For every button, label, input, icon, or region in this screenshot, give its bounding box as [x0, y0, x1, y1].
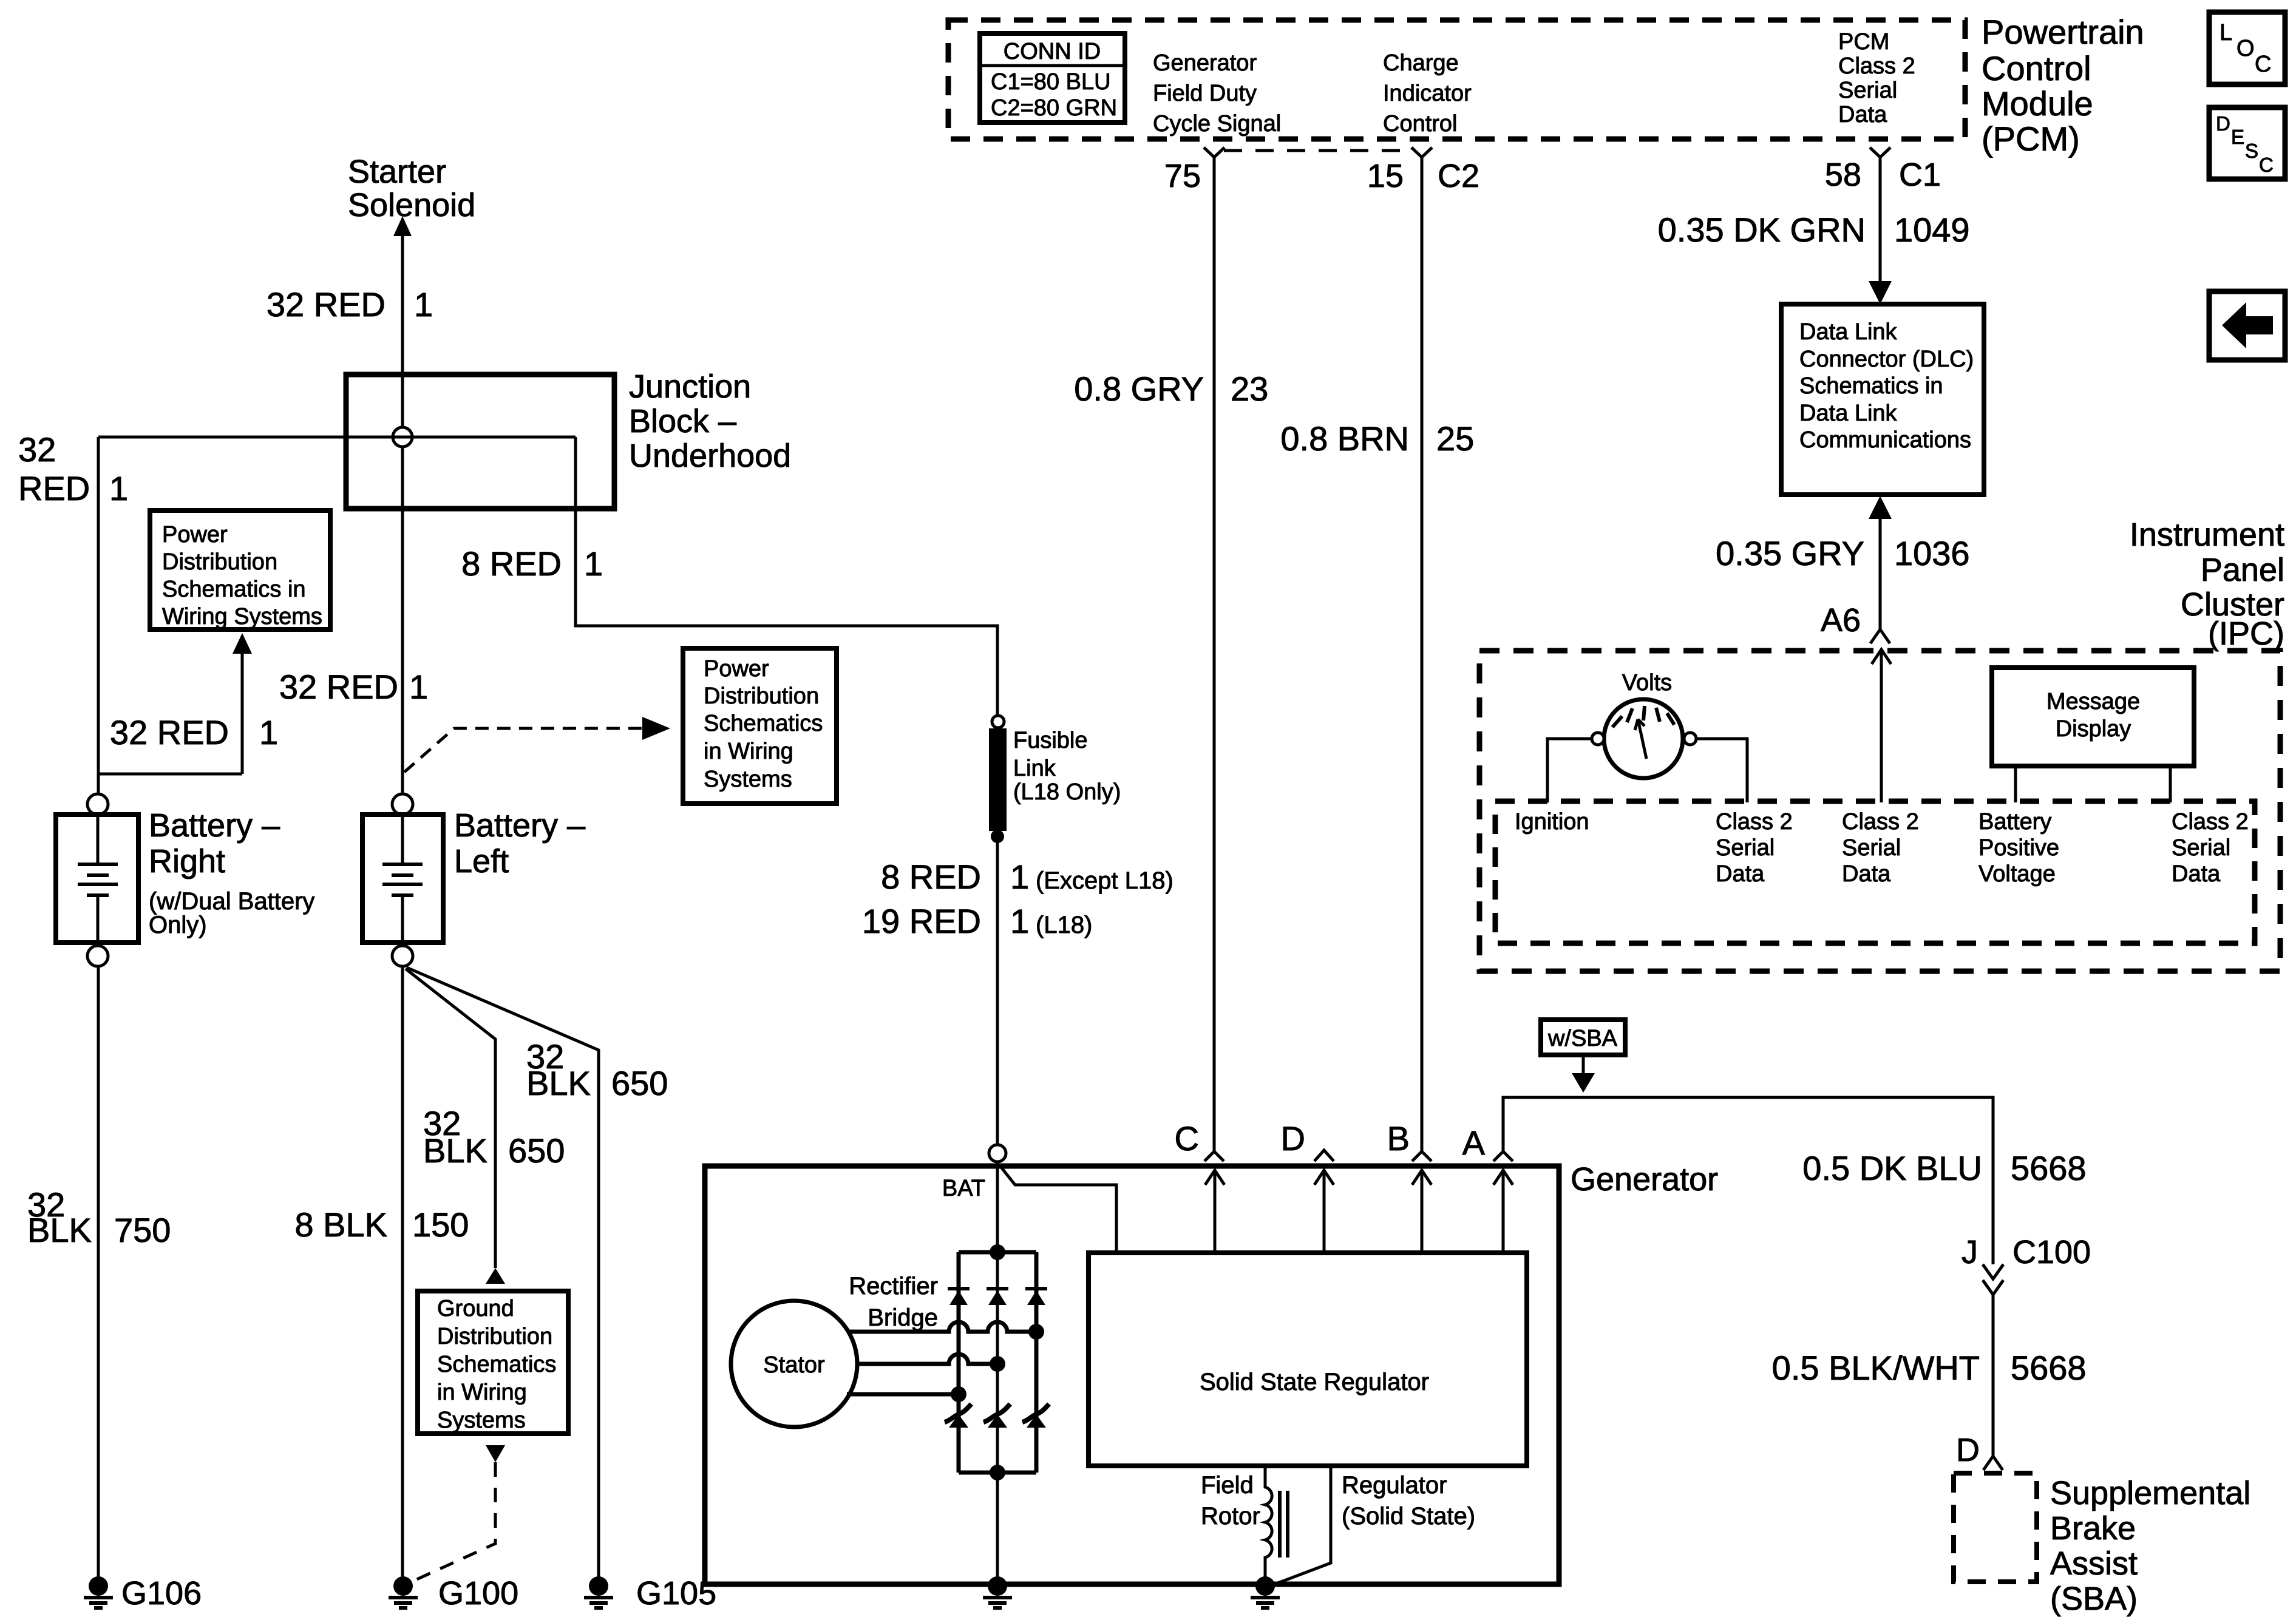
svg-text:1: 1	[1010, 902, 1029, 940]
regulator ground leg	[1268, 1466, 1331, 1587]
wire: PCM class 2 serial data down to DLC	[1879, 157, 1882, 284]
svg-text:Ground: Ground	[437, 1296, 514, 1321]
arrowhead into power distribution box 2	[642, 717, 670, 740]
svg-text:Class 2: Class 2	[1842, 809, 1919, 835]
svg-text:D: D	[2216, 112, 2230, 135]
svg-text:Right: Right	[149, 843, 225, 880]
svg-text:Solenoid: Solenoid	[348, 187, 475, 223]
dashed wire from ground distribution to G100	[413, 1462, 495, 1581]
battery right bottom terminal	[87, 946, 108, 966]
svg-text:Schematics: Schematics	[437, 1352, 556, 1377]
field rotor coil	[1265, 1466, 1272, 1585]
wire label 0.8 GRY 23	[1074, 370, 1268, 408]
wire: generator field duty cycle signal (PCM 75 to generator C)	[1213, 157, 1216, 1151]
svg-text:C2: C2	[1438, 158, 1479, 194]
svg-text:CONN ID: CONN ID	[1004, 39, 1101, 64]
svg-text:Message: Message	[2046, 689, 2140, 714]
svg-text:(L18 Only): (L18 Only)	[1013, 779, 1121, 805]
svg-text:Volts: Volts	[1622, 670, 1672, 696]
arrowhead up above ground distribution box	[486, 1268, 505, 1284]
arrowhead down below ground distribution box	[486, 1445, 505, 1462]
svg-text:0.35 DK GRN: 0.35 DK GRN	[1658, 211, 1866, 249]
svg-text:1036: 1036	[1894, 534, 1970, 572]
svg-text:C: C	[2255, 52, 2271, 77]
junction dot stator wire 1	[1028, 1324, 1044, 1340]
IPC internal wire from A6 down to class 2 serial data pin	[1872, 649, 1891, 802]
svg-text:Control: Control	[1982, 49, 2091, 87]
svg-text:Class 2: Class 2	[1838, 53, 1915, 79]
svg-text:C2=80 GRN: C2=80 GRN	[991, 95, 1117, 121]
svg-text:J: J	[1961, 1234, 1978, 1270]
svg-text:Wiring Systems: Wiring Systems	[162, 604, 322, 629]
svg-text:Generator: Generator	[1153, 50, 1257, 76]
svg-text:S: S	[2245, 140, 2258, 162]
wire: battery right to ground G106	[97, 966, 100, 1578]
ground G105	[584, 1575, 716, 1612]
battery left bottom terminal	[392, 946, 413, 966]
left-arrow legend box	[2209, 291, 2285, 360]
component name: Junction Block - Underhood	[629, 368, 791, 474]
svg-text:Starter: Starter	[348, 154, 446, 190]
svg-text:Display: Display	[2056, 716, 2131, 742]
svg-text:(Except L18): (Except L18)	[1036, 867, 1173, 894]
rectifier bridge top bus	[959, 1250, 1036, 1255]
svg-text:Assist: Assist	[2050, 1545, 2138, 1582]
component name: Battery - Left	[454, 807, 585, 880]
IPC pin label: Class 2 Serial Data (A6)	[1842, 809, 1919, 887]
svg-text:C1: C1	[1899, 157, 1941, 193]
svg-text:Positive: Positive	[1978, 835, 2059, 861]
svg-text:58: 58	[1825, 157, 1861, 193]
fusible link top terminal	[992, 716, 1004, 728]
svg-text:A: A	[1462, 1124, 1486, 1162]
svg-text:in Wiring: in Wiring	[704, 739, 793, 764]
wire label 32 BLK 750	[27, 1185, 171, 1249]
LOC legend box	[2209, 12, 2285, 84]
rectifier branch right	[1034, 1252, 1039, 1473]
wire: C100 down to SBA pin D	[1992, 1295, 1995, 1456]
wire label 0.35 GRY 1036	[1716, 534, 1969, 572]
svg-text:Charge: Charge	[1383, 50, 1459, 76]
junction dot stator wire 2	[990, 1356, 1005, 1372]
IPC inner dashed pin box	[1495, 801, 2255, 943]
pin 75 connector half at PCM	[1164, 147, 1224, 194]
svg-text:1: 1	[584, 544, 603, 583]
svg-text:Data Link: Data Link	[1799, 319, 1898, 345]
svg-text:B: B	[1387, 1119, 1410, 1158]
wire: charge indicator control (PCM 15 to generator B)	[1421, 157, 1424, 1151]
internal arrow to pin B	[1412, 1170, 1432, 1253]
svg-text:w/SBA: w/SBA	[1547, 1026, 1618, 1051]
svg-text:Block –: Block –	[629, 403, 736, 439]
svg-text:Battery –: Battery –	[454, 807, 585, 844]
svg-text:Field: Field	[1201, 1472, 1254, 1499]
Data Link Connector (DLC) reference box	[1781, 304, 1984, 495]
wire up to power distribution box	[241, 654, 244, 774]
PCM pin label: PCM Class 2 Serial Data	[1838, 29, 1915, 127]
svg-text:8 RED: 8 RED	[461, 544, 562, 583]
svg-text:E: E	[2231, 126, 2244, 148]
svg-text:1: 1	[409, 668, 428, 706]
junction dot on BAT wire at top bus	[990, 1244, 1005, 1260]
dashed wire to power distribution reference box 2	[404, 728, 642, 772]
svg-text:Power: Power	[162, 522, 228, 547]
svg-text:Link: Link	[1013, 756, 1056, 781]
IPC pin label: Class 2 Serial Data (message display)	[2172, 809, 2249, 887]
svg-text:(w/Dual Battery: (w/Dual Battery	[149, 888, 314, 915]
svg-text:Connector (DLC): Connector (DLC)	[1799, 347, 1974, 372]
wire: battery left diagonal to ground distribution branch	[406, 969, 495, 1268]
svg-text:Communications: Communications	[1799, 427, 1971, 453]
wire: battery left feed up to starter solenoid	[401, 236, 404, 794]
wire label 32 RED 1 (power distribution branch)	[110, 713, 278, 751]
message display box	[1992, 668, 2194, 766]
svg-text:25: 25	[1436, 419, 1474, 458]
svg-text:5668: 5668	[2011, 1149, 2087, 1187]
component name: Powertrain Control Module (PCM)	[1982, 13, 2144, 158]
wire label 32 BLK 650 (G105)	[526, 1037, 668, 1102]
ground G100	[389, 1575, 518, 1612]
wire: message display left leg	[2014, 766, 2017, 802]
svg-text:Distribution: Distribution	[162, 549, 277, 575]
wire: junction block right drop	[576, 437, 997, 716]
Supplemental Brake Assist (SBA) dashed box	[1954, 1473, 2037, 1582]
svg-text:23: 23	[1231, 370, 1268, 408]
arrowhead into power distribution box	[233, 633, 252, 654]
svg-text:650: 650	[611, 1064, 668, 1102]
svg-text:A6: A6	[1821, 602, 1861, 639]
diode on middle branch	[987, 1289, 1008, 1305]
wire label 19 RED 1 (L18)	[862, 902, 1092, 940]
svg-text:1: 1	[1010, 858, 1029, 896]
svg-text:650: 650	[508, 1131, 565, 1170]
svg-text:Junction: Junction	[629, 368, 751, 405]
pin D connector half at SBA	[1956, 1432, 2003, 1470]
svg-text:Data: Data	[2172, 861, 2221, 887]
inline connector C100 pin J	[1961, 1234, 2091, 1295]
svg-text:(PCM): (PCM)	[1982, 120, 2080, 158]
svg-text:Schematics in: Schematics in	[1799, 373, 1943, 399]
svg-text:Schematics: Schematics	[704, 711, 823, 736]
wire label 0.5 BLK/WHT 5668	[1772, 1349, 2087, 1387]
svg-text:Only): Only)	[149, 912, 207, 938]
component name: Battery - Right	[149, 807, 314, 938]
svg-text:1049: 1049	[1894, 211, 1970, 249]
rectifier bridge bottom bus	[959, 1471, 1036, 1475]
PCM pin label: Charge Indicator Control	[1383, 50, 1472, 137]
svg-text:Systems: Systems	[437, 1408, 526, 1433]
pin 58 connector half at PCM (C1)	[1825, 147, 1941, 193]
CONN ID table	[980, 33, 1125, 123]
wire: class 2 serial data from IPC up to DLC	[1879, 516, 1882, 629]
pin D connector half at generator	[1281, 1119, 1334, 1161]
svg-text:C1=80 BLU: C1=80 BLU	[991, 69, 1111, 95]
diode on right branch	[1025, 1289, 1047, 1305]
IPC pin label: Battery Positive Voltage	[1978, 809, 2059, 887]
svg-text:(Solid State): (Solid State)	[1342, 1503, 1475, 1530]
svg-text:5668: 5668	[2011, 1349, 2087, 1387]
svg-text:Distribution: Distribution	[704, 683, 819, 709]
svg-text:Powertrain: Powertrain	[1982, 13, 2144, 51]
stator wire 1 with crossover humps	[847, 1322, 1036, 1332]
svg-text:Brake: Brake	[2050, 1510, 2136, 1547]
battery left cell symbol	[382, 815, 423, 943]
junction dot stator wire 3	[951, 1386, 966, 1402]
svg-text:Data: Data	[1716, 861, 1765, 887]
svg-text:Data Link: Data Link	[1799, 401, 1898, 426]
svg-text:Data: Data	[1842, 861, 1891, 887]
wire label 8 BLK 150	[294, 1205, 469, 1244]
arrowhead up into DLC box bottom	[1869, 496, 1892, 519]
zener diode on right branch	[1022, 1404, 1049, 1428]
svg-text:C100: C100	[2012, 1234, 2091, 1270]
junction block - underhood box	[346, 375, 614, 509]
PCM module dashed box (Powertrain Control Module)	[948, 20, 1965, 139]
Instrument Panel Cluster (IPC) dashed box	[1479, 651, 2280, 971]
fusible link label	[1013, 728, 1121, 805]
svg-text:32 RED: 32 RED	[110, 713, 229, 751]
svg-text:Serial: Serial	[1838, 78, 1897, 103]
battery right top terminal	[87, 794, 108, 815]
svg-text:C: C	[2259, 154, 2274, 176]
svg-text:Indicator: Indicator	[1383, 81, 1472, 106]
wire label 32 RED 1 (battery right feed)	[18, 430, 128, 507]
svg-text:Power: Power	[704, 656, 769, 682]
svg-text:Instrument: Instrument	[2130, 517, 2284, 553]
wire label 0.8 BRN 25	[1280, 419, 1474, 458]
fusible link bottom junction dot	[991, 830, 1004, 843]
arrowhead up to starter solenoid	[393, 216, 412, 236]
svg-text:Battery –: Battery –	[149, 807, 280, 844]
junction node circle in junction block	[393, 427, 412, 447]
svg-text:0.8 GRY: 0.8 GRY	[1074, 370, 1204, 408]
pin C connector half at generator	[1175, 1119, 1224, 1161]
svg-text:8 RED: 8 RED	[881, 858, 981, 896]
stator wire 3	[847, 1392, 959, 1397]
battery left box	[362, 815, 443, 943]
field rotor core bars	[1280, 1491, 1288, 1558]
wire branch to power distribution reference	[98, 773, 242, 776]
regulator (solid state) label	[1342, 1472, 1475, 1530]
svg-text:in Wiring: in Wiring	[437, 1380, 527, 1405]
svg-text:32 RED: 32 RED	[279, 668, 398, 706]
component name: Starter Solenoid	[348, 154, 475, 223]
svg-text:Stator: Stator	[763, 1352, 825, 1378]
DESC legend box	[2209, 107, 2285, 179]
svg-text:O: O	[2237, 36, 2255, 61]
svg-text:1: 1	[414, 285, 433, 324]
svg-text:G106: G106	[121, 1575, 202, 1612]
IPC pin label: Class 2 Serial Data (volts)	[1716, 809, 1793, 887]
arrowhead down from w/SBA	[1572, 1073, 1595, 1093]
wire: left drop to battery right	[97, 437, 100, 794]
wire label 32 BLK 650 (ground distribution branch)	[423, 1104, 565, 1170]
svg-text:Bridge: Bridge	[868, 1304, 938, 1331]
svg-text:0.5 DK BLU: 0.5 DK BLU	[1802, 1149, 1982, 1187]
svg-text:Solid State Regulator: Solid State Regulator	[1200, 1369, 1429, 1395]
pin 15 connector half at PCM	[1367, 147, 1479, 194]
svg-text:G100: G100	[438, 1575, 518, 1612]
svg-text:Left: Left	[454, 843, 509, 880]
svg-text:Field Duty: Field Duty	[1153, 81, 1257, 106]
svg-text:C: C	[1175, 1119, 1199, 1158]
wire label 8 RED 1	[461, 544, 603, 583]
svg-text:Fusible: Fusible	[1013, 728, 1088, 753]
stator wire 2 with crossover hump	[857, 1354, 997, 1364]
svg-text:Class 2: Class 2	[2172, 809, 2249, 835]
ground distribution schematics reference box	[418, 1291, 568, 1434]
svg-text:BLK: BLK	[423, 1131, 487, 1170]
svg-text:0.5 BLK/WHT: 0.5 BLK/WHT	[1772, 1349, 1980, 1387]
svg-text:(SBA): (SBA)	[2050, 1581, 2138, 1617]
svg-text:1: 1	[109, 469, 128, 507]
svg-text:Serial: Serial	[1716, 835, 1775, 861]
svg-text:19 RED: 19 RED	[862, 902, 981, 940]
fusible link element	[989, 728, 1007, 831]
power distribution schematics reference box 2	[683, 648, 837, 804]
wire: horizontal bus in junction block	[98, 436, 576, 439]
junction dot at bottom bus	[990, 1465, 1005, 1480]
diode on left branch	[948, 1289, 970, 1305]
svg-text:8 BLK: 8 BLK	[294, 1205, 387, 1244]
svg-text:Class 2: Class 2	[1716, 809, 1793, 835]
generator internal ground symbol	[983, 1576, 1012, 1608]
svg-text:Generator: Generator	[1571, 1161, 1718, 1198]
component name: Instrument Panel Cluster (IPC)	[2130, 517, 2284, 652]
zener diode on middle branch	[983, 1404, 1010, 1428]
stator circle	[731, 1301, 857, 1427]
svg-text:G105: G105	[636, 1575, 716, 1612]
svg-text:Voltage: Voltage	[1978, 861, 2056, 887]
svg-text:BLK: BLK	[27, 1211, 92, 1249]
svg-text:32: 32	[18, 430, 56, 469]
internal arrow to pin C	[1205, 1170, 1224, 1253]
internal arrow to pin A	[1493, 1170, 1513, 1253]
w/SBA option tag box	[1541, 1020, 1625, 1055]
svg-text:PCM: PCM	[1838, 29, 1889, 55]
svg-text:Underhood: Underhood	[629, 438, 791, 474]
svg-text:Serial: Serial	[1842, 835, 1901, 861]
field rotor ground symbol	[1251, 1576, 1280, 1608]
wire: fusible link to generator BAT	[996, 836, 999, 1145]
svg-text:BAT: BAT	[942, 1176, 985, 1201]
power distribution schematics reference box 1	[150, 510, 330, 629]
svg-text:75: 75	[1164, 158, 1201, 194]
svg-text:Schematics in: Schematics in	[162, 577, 306, 602]
svg-text:(L18): (L18)	[1036, 912, 1092, 938]
svg-text:Distribution: Distribution	[437, 1324, 552, 1349]
wire: battery left diagonal to ground G105	[407, 968, 599, 1578]
wire: volts gauge right terminal to class 2 serial data pin	[1696, 739, 1747, 802]
svg-text:Rotor: Rotor	[1201, 1503, 1260, 1530]
svg-text:Battery: Battery	[1978, 809, 2051, 835]
svg-text:Systems: Systems	[704, 767, 792, 792]
svg-text:Module: Module	[1982, 84, 2093, 123]
svg-text:1: 1	[259, 713, 278, 751]
svg-text:BLK: BLK	[526, 1064, 591, 1102]
BAT terminal circle	[989, 1145, 1006, 1162]
svg-text:Panel: Panel	[2201, 552, 2284, 588]
svg-text:Rectifier: Rectifier	[849, 1273, 938, 1300]
wire from BAT to solid state regulator	[1001, 1167, 1116, 1253]
svg-text:D: D	[1956, 1432, 1980, 1468]
svg-text:Regulator: Regulator	[1342, 1472, 1447, 1499]
wire: message display right leg	[2169, 766, 2172, 802]
svg-text:RED: RED	[18, 469, 90, 507]
wire: volts gauge left terminal to Ignition pin	[1547, 739, 1592, 802]
wire label 32 RED 1 (battery left feed)	[279, 668, 428, 706]
svg-text:15: 15	[1367, 158, 1404, 194]
wire label 32 RED 1 (starter feed)	[267, 285, 433, 324]
pin B connector half at generator	[1387, 1119, 1432, 1161]
svg-text:(IPC): (IPC)	[2208, 615, 2284, 652]
field rotor label	[1201, 1472, 1260, 1530]
svg-text:0.8 BRN: 0.8 BRN	[1280, 419, 1409, 458]
svg-text:Cycle Signal: Cycle Signal	[1153, 111, 1281, 137]
svg-text:Serial: Serial	[2172, 835, 2230, 861]
rectifier branch left	[957, 1252, 961, 1473]
svg-text:0.35 GRY: 0.35 GRY	[1716, 534, 1864, 572]
volts gauge	[1592, 670, 1696, 778]
ground G106	[84, 1575, 202, 1612]
battery left top terminal	[392, 794, 413, 815]
battery right cell symbol	[78, 815, 118, 943]
solid state regulator box	[1089, 1253, 1527, 1466]
internal arrow to pin D	[1314, 1170, 1334, 1253]
rectifier bridge label	[849, 1273, 938, 1331]
svg-text:Supplemental: Supplemental	[2050, 1475, 2250, 1511]
arrowhead into DLC box	[1869, 281, 1892, 304]
svg-text:Ignition: Ignition	[1515, 809, 1589, 835]
PCM pin label: Generator Field Duty Cycle Signal	[1153, 50, 1281, 137]
battery right box	[56, 815, 138, 943]
wire: battery left to ground G100	[401, 966, 404, 1578]
svg-text:Data: Data	[1838, 102, 1887, 127]
zener diode on left branch	[945, 1404, 971, 1428]
wire BAT vertical through rectifier to ground	[996, 1162, 999, 1585]
svg-text:Control: Control	[1383, 111, 1458, 137]
pin A6 connector half at IPC	[1821, 602, 1890, 643]
wire: generator A to SBA horizontal run	[1503, 1097, 1993, 1264]
component name: Supplemental Brake Assist (SBA)	[2050, 1475, 2250, 1617]
svg-text:750: 750	[114, 1211, 171, 1249]
wire from w/SBA tag down	[1582, 1055, 1585, 1076]
svg-text:32 RED: 32 RED	[267, 285, 385, 324]
Generator box	[705, 1166, 1559, 1584]
svg-text:L: L	[2220, 20, 2232, 46]
wire label 8 RED 1 (Except L18)	[881, 858, 1173, 896]
connector C2 dashed line between pins 75 and 15	[1224, 149, 1413, 152]
pin A connector half at generator	[1462, 1124, 1513, 1162]
wire label 0.5 DK BLU 5668	[1802, 1149, 2086, 1187]
wire label 0.35 DK GRN 1049	[1658, 211, 1970, 249]
svg-text:150: 150	[412, 1205, 469, 1244]
svg-text:D: D	[1281, 1119, 1305, 1158]
